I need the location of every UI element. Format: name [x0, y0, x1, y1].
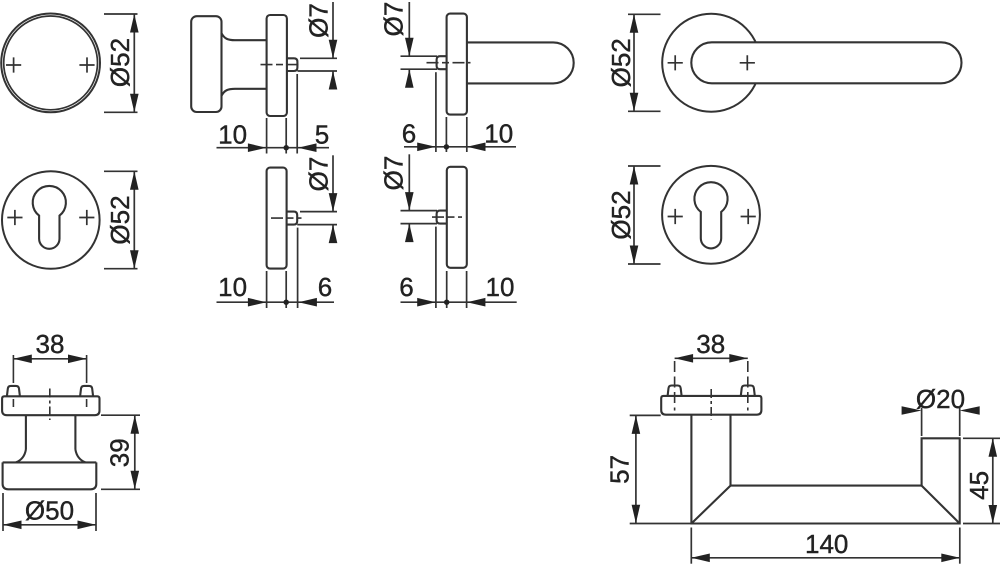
- svg-text:Ø52: Ø52: [606, 38, 636, 87]
- rosette F side view: [267, 168, 287, 269]
- svg-text:10: 10: [484, 119, 513, 149]
- knob B head: [191, 16, 221, 112]
- svg-text:38: 38: [696, 329, 725, 359]
- dimension 57 for lever J: [630, 414, 661, 416]
- key rosette E cylinder hole: [33, 186, 66, 249]
- dimension D52 for key rosette H: [628, 165, 661, 167]
- svg-text:Ø52: Ø52: [105, 38, 135, 87]
- rosette G spindle stub: [437, 211, 447, 224]
- svg-text:Ø52: Ø52: [105, 195, 135, 244]
- dimension D52 for key rosette E: [104, 170, 138, 172]
- knob I right screw head: [80, 386, 93, 396]
- rosette F centerline: [271, 217, 302, 219]
- lever D left screw mark: [668, 55, 683, 70]
- dimension D7 for knob B spindle: [300, 57, 337, 59]
- svg-text:10: 10: [218, 120, 247, 150]
- dimension 10 / 5 for knob B: [266, 118, 268, 154]
- knob I mounting plate: [2, 396, 99, 415]
- svg-text:57: 57: [605, 455, 635, 484]
- rosette A left screw mark: [6, 57, 21, 72]
- lever D grip: [691, 42, 961, 83]
- dimension 6 / 10 for rosette G: [435, 227, 437, 308]
- lever C rosette side view: [447, 14, 467, 115]
- dimension 10 / 6 for rosette F: [266, 271, 268, 308]
- svg-text:10: 10: [218, 272, 247, 302]
- dimension D50 for knob I: [2, 493, 4, 531]
- svg-text:140: 140: [805, 529, 848, 559]
- rosette A right screw mark: [79, 57, 94, 72]
- rosette G centerline: [432, 216, 462, 218]
- knob B spindle stub: [287, 58, 297, 71]
- dimension 45 for lever J: [963, 437, 1000, 439]
- lever J plate centerline: [710, 389, 712, 420]
- dimension D52 for lever D: [628, 13, 661, 15]
- key rosette E left screw mark: [7, 210, 22, 225]
- dimension 140 for lever J: [690, 528, 692, 564]
- svg-text:Ø52: Ø52: [606, 190, 636, 239]
- lever J right miter line: [922, 486, 960, 524]
- lever J left miter line: [691, 486, 730, 524]
- rosette A outline (blind rosette, front view): [1, 14, 100, 113]
- knob B neck bottom line: [221, 89, 267, 96]
- key rosette H left screw mark: [668, 209, 683, 224]
- knob B centerline: [261, 64, 302, 66]
- knob I flare: [16, 450, 85, 463]
- svg-text:Ø7: Ø7: [303, 3, 333, 38]
- svg-text:39: 39: [105, 438, 135, 467]
- lever D rosette circle: [662, 14, 760, 112]
- dimension D7 for rosette F spindle: [300, 211, 337, 213]
- rosette F spindle stub: [287, 212, 298, 225]
- svg-text:Ø7: Ø7: [378, 156, 408, 191]
- lever D spindle mark: [740, 55, 755, 70]
- lever J left screw centerline: [674, 361, 676, 411]
- lever J mounting plate: [661, 396, 761, 415]
- dimension 38 for lever J screws: [675, 357, 748, 359]
- svg-text:6: 6: [402, 119, 416, 149]
- knob I neck: [25, 415, 27, 449]
- knob I right screw centerline: [86, 355, 88, 383]
- knob I left screw head: [7, 386, 20, 396]
- dimension D7 for lever C spindle: [401, 55, 438, 57]
- svg-text:45: 45: [964, 471, 994, 500]
- key rosette H right screw mark: [741, 209, 756, 224]
- rosette G side view: [447, 167, 467, 268]
- svg-text:Ø20: Ø20: [916, 384, 965, 414]
- svg-text:Ø50: Ø50: [25, 496, 74, 526]
- lever C grip bar: [467, 42, 574, 83]
- svg-text:Ø7: Ø7: [303, 157, 333, 192]
- svg-text:Ø7: Ø7: [378, 2, 408, 37]
- dimension D20 for lever J grip end: [921, 408, 923, 436]
- lever J right screw head: [741, 386, 755, 396]
- svg-text:6: 6: [399, 272, 413, 302]
- key rosette E outline: [2, 171, 100, 269]
- knob B rosette side view: [267, 15, 287, 116]
- key rosette H cylinder hole: [694, 182, 727, 248]
- svg-text:38: 38: [36, 329, 65, 359]
- dimension D52 for rosette A: [104, 13, 138, 15]
- dimension 6 / 10 for lever C: [435, 72, 437, 152]
- lever C spindle stub: [437, 56, 447, 69]
- lever J left screw head: [668, 386, 682, 396]
- knob I head: [3, 462, 97, 489]
- svg-text:10: 10: [486, 272, 515, 302]
- svg-text:5: 5: [315, 120, 329, 150]
- key rosette E right screw mark: [79, 210, 94, 225]
- dimension 38 for knob I screws: [13, 358, 86, 360]
- knob I left screw centerline: [12, 355, 14, 383]
- knob I plate centerline: [49, 389, 51, 421]
- dimension D7 for rosette G spindle: [401, 210, 438, 212]
- lever J right screw centerline: [747, 361, 749, 411]
- key rosette H outline: [662, 166, 760, 264]
- dimension 39 for knob I: [101, 414, 140, 416]
- svg-text:6: 6: [318, 272, 332, 302]
- lever C centerline: [427, 62, 471, 64]
- knob B neck top line: [221, 33, 267, 40]
- lever J neck and grip outline: [691, 415, 959, 524]
